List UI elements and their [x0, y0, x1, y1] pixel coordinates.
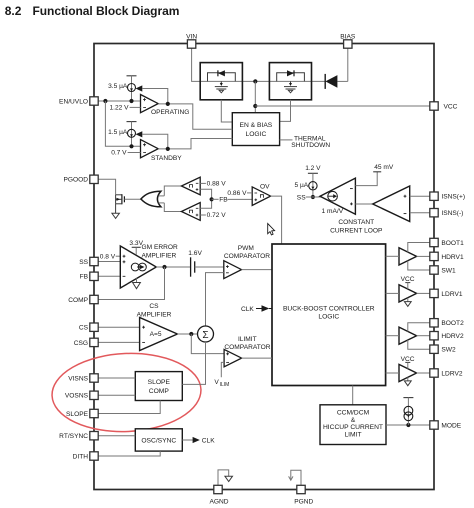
svg-text:PGOOD: PGOOD: [63, 177, 88, 184]
svg-text:VIN: VIN: [186, 34, 197, 41]
op-amp GM ERROR AMPLIFIER: [120, 246, 156, 288]
label CLK input with arrow: [241, 305, 272, 313]
op-amp CS A=5: [140, 318, 178, 351]
label GM ERROR AMPLIFIER: [142, 244, 179, 259]
diode D1 to BIAS: [325, 74, 337, 89]
op-amp ISNS sense: [373, 186, 410, 222]
pin COMP: [68, 295, 98, 304]
wire OV output to controller logic: [271, 196, 282, 244]
pin CS: [79, 323, 98, 332]
svg-text:FB: FB: [219, 197, 228, 204]
capacitor 1.6V offset: [188, 250, 202, 277]
comparator 0.72V: [181, 203, 200, 221]
summing node sigma: [198, 326, 214, 342]
wire SW1 to driver: [408, 261, 430, 270]
node I2 on input wire: [129, 144, 133, 148]
comparator OV: [252, 184, 270, 206]
svg-text:BOOT1: BOOT1: [441, 240, 464, 247]
wire STANDBY output to EN&BIAS: [158, 139, 232, 149]
pin BIAS: [340, 34, 356, 48]
svg-text:SW1: SW1: [441, 267, 456, 274]
pin BOOT2: [430, 319, 464, 328]
wire 0.72V comp to FB node: [200, 199, 211, 208]
svg-text:OPERATING: OPERATING: [151, 109, 189, 116]
svg-text:COMP: COMP: [149, 388, 170, 395]
wire VIN/BIAS rail through switch blocks: [200, 48, 348, 81]
svg-text:0.7 V: 0.7 V: [111, 150, 127, 157]
svg-text:BUCK-BOOST CONTROLLER: BUCK-BOOST CONTROLLER: [283, 305, 375, 312]
wire COMP pin net: [98, 267, 164, 300]
svg-text:LOGIC: LOGIC: [245, 131, 266, 138]
svg-text:HDRV2: HDRV2: [441, 333, 464, 340]
pin SS: [79, 257, 98, 266]
svg-text:&: &: [351, 417, 356, 424]
pin VISNS: [68, 374, 98, 383]
svg-text:SLOPE: SLOPE: [66, 411, 89, 418]
pin CSG: [74, 338, 98, 347]
svg-text:SLOPE: SLOPE: [148, 379, 171, 386]
gate driver LDRV2: [386, 364, 430, 381]
label 0.8 V ref: [100, 254, 121, 261]
wire sigma to PWM inverting input: [206, 273, 224, 326]
transistor Q-PGOOD: [116, 194, 125, 213]
wire slope comp to sigma: [182, 342, 205, 384]
node EN/UVLO branch: [103, 99, 107, 103]
svg-text:LIMIT: LIMIT: [344, 432, 361, 439]
pass switch block Q-VIN (left): [200, 63, 242, 100]
svg-text:Functional Block Diagram: Functional Block Diagram: [33, 4, 180, 18]
SLOPE COMP block: [135, 372, 182, 401]
wire SLOPE to slope comp: [98, 401, 160, 414]
wire CCM block to MODE pin: [386, 424, 430, 426]
svg-text:DITH: DITH: [73, 453, 89, 460]
wire UV-low comparator to OR: [164, 203, 181, 212]
svg-text:OV: OV: [260, 184, 270, 191]
svg-text:1 mA/V: 1 mA/V: [322, 208, 344, 215]
label ILIMIT COMPARATOR: [224, 336, 270, 351]
svg-text:1.5 µA: 1.5 µA: [108, 129, 128, 136]
svg-text:Σ: Σ: [202, 330, 208, 341]
svg-text:MODE: MODE: [441, 422, 461, 429]
pin PGOOD: [63, 175, 98, 184]
svg-text:COMP: COMP: [68, 297, 88, 304]
svg-text:SHUTDOWN: SHUTDOWN: [291, 142, 330, 149]
pin DITH: [73, 452, 99, 461]
gate driver HDRV2: [386, 327, 430, 344]
svg-text:1.22 V: 1.22 V: [110, 104, 130, 111]
OR gate U-PG: [141, 191, 164, 207]
pin AGND: [209, 485, 228, 505]
pin LDRV1: [430, 289, 463, 298]
wire Q-VIN block to EN&BIAS: [221, 100, 232, 122]
pin PGND: [294, 485, 313, 505]
pin EN/UVLO: [59, 97, 98, 106]
wire BOOT1 to driver: [408, 243, 430, 253]
node VCC rail junction: [253, 79, 257, 83]
wire VIN down to switch block: [192, 48, 201, 81]
ground below Q-PGOOD: [112, 213, 120, 218]
svg-text:3.5 µA: 3.5 µA: [108, 83, 128, 90]
svg-text:1.6V: 1.6V: [188, 250, 202, 257]
svg-text:CURRENT LOOP: CURRENT LOOP: [330, 228, 383, 235]
svg-text:5 µA: 5 µA: [294, 182, 308, 189]
EN & BIAS LOGIC block: [232, 113, 279, 146]
ground below LDRV1: [404, 298, 411, 307]
wire DITH to osc: [98, 451, 160, 456]
svg-text:LOGIC: LOGIC: [318, 314, 339, 321]
svg-text:1.2 V: 1.2 V: [305, 165, 321, 172]
wire SW2 to driver: [408, 340, 430, 349]
label 0.72 V: [200, 212, 226, 219]
label CONSTANT CURRENT LOOP: [330, 219, 383, 234]
svg-text:CLK: CLK: [241, 306, 254, 313]
wire thermal shutdown: [280, 139, 293, 141]
label 0.86 V: [227, 190, 252, 197]
svg-text:STANDBY: STANDBY: [151, 155, 182, 162]
wire branch to STANDBY input: [105, 101, 140, 146]
pass switch block Q-BIAS (right): [269, 63, 311, 100]
wire ISNS(-): [410, 212, 430, 214]
wire PGOOD to pulldown FET: [98, 179, 115, 195]
wire CS amp output to sigma: [177, 333, 197, 335]
svg-text:CS: CS: [79, 325, 89, 332]
label VILIM with wire: [214, 362, 229, 387]
pin HDRV1: [430, 252, 464, 261]
svg-text:AGND: AGND: [209, 499, 228, 506]
pin SW1: [430, 266, 456, 275]
svg-text:SS: SS: [79, 259, 88, 266]
label 0.88 V: [200, 181, 226, 188]
node COMP tap: [162, 265, 166, 269]
node CS output: [189, 332, 193, 336]
svg-text:0.88 V: 0.88 V: [207, 181, 227, 188]
svg-text:SS: SS: [297, 195, 306, 202]
svg-text:AMPLIFIER: AMPLIFIER: [142, 252, 177, 259]
pin HDRV2: [430, 332, 464, 341]
red annotation ellipse: [50, 350, 202, 434]
svg-text:BOOT2: BOOT2: [441, 320, 464, 327]
pin VIN: [186, 34, 197, 48]
current source I2 1.5uA: [108, 122, 136, 147]
label PWM COMPARATOR: [224, 245, 270, 260]
node I1 on input wire: [129, 99, 133, 103]
label THERMAL SHUTDOWN: [291, 136, 330, 149]
pin VOSNS: [65, 391, 98, 400]
wire 0.88V comp to FB node: [200, 189, 211, 199]
svg-text:ISNS(+): ISNS(+): [441, 194, 465, 201]
node SS: [311, 195, 315, 199]
svg-text:PGND: PGND: [294, 499, 313, 506]
svg-text:FB: FB: [80, 274, 89, 281]
CCM/DCM HICCUP block: [320, 405, 386, 445]
op-amp CC loop gm 1mA/V: [320, 178, 355, 215]
OSC/SYNC block: [135, 429, 182, 451]
svg-text:VISNS: VISNS: [68, 375, 88, 382]
svg-text:EN & BIAS: EN & BIAS: [240, 122, 273, 129]
wire CSG pin to CS amp: [98, 341, 139, 343]
current source I4 MODE pullup: [403, 398, 413, 425]
pin FB: [80, 272, 99, 281]
svg-text:OSC/SYNC: OSC/SYNC: [141, 437, 176, 444]
node OPERATING output: [166, 102, 170, 106]
label VCC supply LDRV1: [401, 276, 415, 289]
pin VCC: [430, 102, 458, 111]
mouse cursor: [268, 224, 275, 235]
label CLK output with arrow: [182, 437, 215, 445]
svg-text:VOSNS: VOSNS: [65, 393, 89, 400]
ground below LDRV2: [404, 377, 411, 385]
svg-text:LDRV2: LDRV2: [441, 370, 462, 377]
hysteresis feedback arrow STANDBY: [136, 131, 168, 149]
comparator STANDBY: [141, 140, 183, 163]
svg-text:VCC: VCC: [444, 103, 458, 110]
wire controller logic to CCM block: [352, 386, 354, 405]
svg-text:PWM: PWM: [238, 245, 254, 252]
wire Q-BIAS block to EN&BIAS: [280, 100, 291, 122]
svg-text:0.86 V: 0.86 V: [227, 190, 247, 197]
wire FB label to OV input: [227, 198, 252, 200]
hysteresis feedback arrow OPERATING: [136, 85, 168, 104]
label 3.3V supply: [129, 240, 143, 255]
svg-text:SW2: SW2: [441, 347, 456, 354]
svg-text:0.72 V: 0.72 V: [207, 212, 227, 219]
current source I3 5uA SS: [294, 165, 321, 197]
comparator OPERATING: [141, 95, 190, 116]
svg-text:ILIMIT: ILIMIT: [238, 336, 257, 343]
label 0.7 V ref: [111, 150, 140, 157]
svg-text:8.2: 8.2: [5, 4, 22, 18]
wire FB pin to GM amp: [98, 275, 120, 277]
wire SS node to CC amp tip: [306, 196, 321, 198]
node MODE: [406, 423, 410, 427]
svg-text:CCM/DCM: CCM/DCM: [337, 410, 370, 417]
label VCC supply LDRV2: [401, 356, 415, 369]
svg-text:HDRV1: HDRV1: [441, 254, 464, 261]
wire CS node to ILIMIT comparator: [191, 334, 224, 354]
label 1.22 V ref: [110, 104, 141, 111]
ground symbol PGND arrow: [289, 470, 301, 485]
wire EN/UVLO input net: [98, 100, 140, 102]
wire BOOT2 to driver: [408, 323, 430, 332]
wire ISNS(+): [410, 195, 430, 197]
wire SS pin to GM amp: [98, 261, 120, 263]
svg-text:ILIM: ILIM: [220, 382, 230, 388]
gate driver HDRV1: [386, 248, 430, 265]
svg-text:HICCUP CURRENT: HICCUP CURRENT: [323, 424, 383, 431]
wire VCC to pin: [255, 105, 429, 107]
svg-text:0.8 V: 0.8 V: [100, 254, 116, 261]
svg-text:LDRV1: LDRV1: [441, 291, 462, 298]
wire ILIMIT output to controller logic: [242, 357, 272, 359]
wire ISNS amp output to CC amp: [355, 203, 372, 205]
comparator PWM: [224, 261, 242, 279]
pin LDRV2: [430, 369, 463, 378]
pin SW2: [430, 345, 456, 354]
svg-text:CLK: CLK: [202, 437, 215, 444]
wire VISNS to slope comp: [98, 377, 135, 379]
ground below GM amp: [133, 278, 141, 288]
wire OPERATING output to EN&BIAS: [158, 104, 232, 129]
wire rail down to EN&BIAS: [254, 81, 256, 112]
pin MODE: [430, 421, 462, 430]
wire PWM output to controller logic: [242, 269, 273, 271]
label CS AMPLIFIER: [137, 303, 172, 318]
node STANDBY output: [166, 147, 170, 151]
svg-text:45 mV: 45 mV: [374, 164, 394, 171]
BUCK-BOOST CONTROLLER LOGIC block: [272, 244, 386, 386]
gate driver LDRV1: [386, 285, 430, 302]
svg-text:CS: CS: [149, 303, 159, 310]
svg-text:COMPARATOR: COMPARATOR: [224, 344, 270, 351]
wire gate of Q-PGOOD: [124, 198, 140, 200]
node VCC tap: [253, 104, 257, 108]
svg-text:ISNS(-): ISNS(-): [441, 210, 463, 217]
wire RT/SYNC to osc: [98, 435, 135, 437]
pin ISNS(-): [430, 209, 464, 218]
svg-text:CONSTANT: CONSTANT: [338, 219, 374, 226]
pin BOOT1: [430, 238, 464, 247]
pin SLOPE: [66, 409, 98, 418]
comparator ILIMIT: [224, 349, 242, 366]
wire OV-high comparator to OR: [164, 186, 181, 196]
pin ISNS(+): [430, 192, 465, 201]
main IC boundary box: [94, 44, 434, 490]
svg-text:EN/UVLO: EN/UVLO: [59, 98, 88, 105]
svg-text:GM ERROR: GM ERROR: [142, 244, 179, 251]
ground symbol AGND: [218, 470, 233, 485]
pin RT/SYNC: [59, 432, 98, 441]
wire FB to OV comparator: [212, 198, 219, 200]
svg-text:BIAS: BIAS: [340, 34, 356, 41]
svg-text:AMPLIFIER: AMPLIFIER: [137, 311, 172, 318]
svg-text:COMPARATOR: COMPARATOR: [224, 253, 270, 260]
svg-text:RT/SYNC: RT/SYNC: [59, 433, 88, 440]
current source I1 3.5uA: [108, 76, 136, 101]
wire CS pin to CS amp: [98, 326, 139, 328]
svg-text:A=5: A=5: [150, 331, 162, 338]
wire VOSNS to slope comp: [98, 394, 135, 396]
svg-text:CSG: CSG: [74, 340, 88, 347]
node FB: [210, 197, 214, 201]
wire capacitor to PWM comparator: [195, 266, 224, 268]
comparator 0.88V: [181, 177, 200, 195]
wire GM output to capacitor: [156, 266, 190, 268]
label 45 mV with wire: [355, 164, 393, 185]
